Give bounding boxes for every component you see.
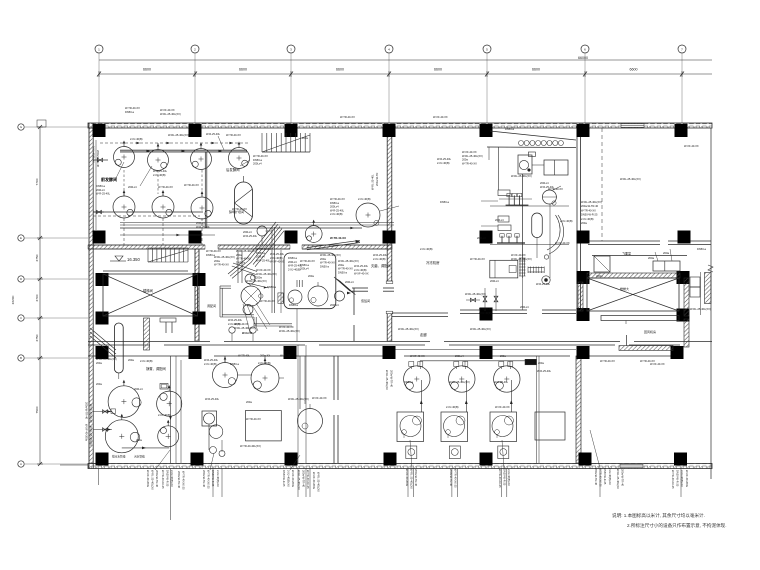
svg-text:2-XJ-40(B)-XX: 2-XJ-40(B)-XX bbox=[216, 470, 220, 487]
svg-text:W-RL-25-40L(XX): W-RL-25-40L(XX) bbox=[168, 133, 189, 137]
left wall rot labels bbox=[385, 370, 394, 390]
svg-text:W-RL-25-40L(XX: W-RL-25-40L(XX bbox=[317, 472, 321, 492]
right stair landing bbox=[601, 316, 679, 325]
tank S3 bbox=[157, 385, 182, 416]
svg-text:6600: 6600 bbox=[630, 68, 638, 72]
svg-text:W-TR-40-XX-25: W-TR-40-XX-25 bbox=[306, 470, 310, 489]
tank F6 bbox=[152, 190, 174, 218]
svg-text:G: G bbox=[20, 125, 22, 129]
svg-text:W-RL-25-40L(XX): W-RL-25-40L(XX) bbox=[256, 272, 277, 276]
svg-text:6600: 6600 bbox=[434, 68, 442, 72]
room label feimian bbox=[622, 251, 631, 256]
svg-text:W-RL-25-40L(XX): W-RL-25-40L(XX) bbox=[511, 174, 532, 178]
pump small near capsule bbox=[257, 226, 272, 245]
svg-text:DN50-a: DN50-a bbox=[404, 380, 413, 384]
svg-text:W-XF-40-200a: W-XF-40-200a bbox=[146, 470, 150, 488]
svg-text:2-XJ-40(B): 2-XJ-40(B) bbox=[270, 256, 283, 260]
svg-text:200a: 200a bbox=[136, 438, 142, 442]
svg-text:前发酵间: 前发酵间 bbox=[101, 176, 117, 182]
pump box B1 bbox=[406, 446, 417, 459]
svg-text:200Lx4: 200Lx4 bbox=[256, 255, 265, 259]
svg-text:DN50-a: DN50-a bbox=[96, 184, 105, 188]
svg-text:DN50-a: DN50-a bbox=[288, 256, 297, 260]
machine coupling horizontal bbox=[528, 267, 544, 274]
svg-text:W-R-25-40L: W-R-25-40L bbox=[153, 169, 168, 173]
pump box B2 bbox=[449, 446, 460, 459]
svg-text:C: C bbox=[20, 316, 22, 320]
chain circles bbox=[241, 274, 263, 315]
svg-text:DN50-a: DN50-a bbox=[505, 127, 514, 131]
stair top-middle bbox=[262, 133, 310, 152]
svg-text:排污水管线: 排污水管线 bbox=[112, 455, 126, 459]
room label ferment bbox=[101, 176, 117, 182]
machine box B bbox=[518, 152, 535, 174]
pipe drop machine x522 bbox=[521, 174, 523, 278]
tank M1 bbox=[213, 357, 238, 388]
tank B3 bbox=[494, 362, 520, 393]
tank F2 bbox=[148, 144, 169, 171]
svg-text:W-RL-25-40L(XX: W-RL-25-40L(XX bbox=[89, 426, 93, 446]
svg-text:DN50-a: DN50-a bbox=[256, 251, 265, 255]
svg-text:200Lx4: 200Lx4 bbox=[495, 218, 504, 222]
svg-text:DN50-a: DN50-a bbox=[330, 201, 339, 205]
right box1 bbox=[594, 256, 610, 272]
svg-text:W-XF-40-XX: W-XF-40-XX bbox=[433, 115, 448, 119]
wall miejun small y288 bbox=[352, 288, 394, 341]
svg-text:200Lx4: 200Lx4 bbox=[345, 280, 354, 284]
svg-text:W-RL-25-40L(XX): W-RL-25-40L(XX) bbox=[279, 329, 300, 333]
svg-text:200Lx4: 200Lx4 bbox=[300, 267, 309, 271]
svg-text:200Lx4: 200Lx4 bbox=[253, 162, 262, 166]
svg-text:200a-W-TR-40: 200a-W-TR-40 bbox=[449, 469, 453, 487]
svg-text:W-XF-40-XX: W-XF-40-XX bbox=[410, 354, 425, 358]
svg-text:W-XF-40-XX: W-XF-40-XX bbox=[312, 396, 327, 400]
svg-text:W-XF-40-200a: W-XF-40-200a bbox=[312, 472, 316, 490]
svg-text:W-R-25-40L: W-R-25-40L bbox=[228, 318, 243, 322]
svg-text:W-XF-40-XX: W-XF-40-XX bbox=[555, 241, 570, 245]
unit square B2 bbox=[441, 412, 468, 442]
svg-text:污水管线: 污水管线 bbox=[134, 455, 145, 459]
svg-text:2-XJ-40(B): 2-XJ-40(B) bbox=[560, 219, 573, 223]
svg-text:W-R-25-40L: W-R-25-40L bbox=[243, 234, 258, 238]
notes text bbox=[612, 512, 727, 529]
svg-text:W-R-25-40L: W-R-25-40L bbox=[537, 369, 552, 373]
svg-text:200a: 200a bbox=[246, 400, 252, 404]
right stair hatch top bbox=[587, 273, 680, 278]
pad drop pipe bbox=[296, 309, 298, 341]
svg-text:W-RL-25-40L(XX): W-RL-25-40L(XX) bbox=[96, 357, 117, 361]
svg-text:W-XF-40-XX: W-XF-40-XX bbox=[511, 253, 526, 257]
pump pad2 bbox=[308, 282, 328, 306]
svg-text:静置、调配间: 静置、调配间 bbox=[146, 366, 166, 371]
svg-text:2-XJ-40(B): 2-XJ-40(B) bbox=[358, 197, 371, 201]
svg-text:DN50-W-R-25: DN50-W-R-25 bbox=[603, 468, 607, 485]
svg-text:W-TR-40-XX-25: W-TR-40-XX-25 bbox=[182, 471, 186, 490]
svg-text:W-R-25-40L: W-R-25-40L bbox=[494, 380, 509, 384]
right stair right wall bbox=[684, 278, 689, 316]
bottom-left pipe verticals bbox=[169, 356, 181, 463]
right stair left wall bbox=[578, 282, 583, 311]
svg-text:200Lx4: 200Lx4 bbox=[196, 221, 205, 225]
room label lengdong bbox=[426, 260, 440, 265]
right 200m label bbox=[596, 251, 669, 278]
machine coupling vertical bbox=[519, 258, 526, 276]
svg-text:2-XJ-40(B)-XX: 2-XJ-40(B)-XX bbox=[507, 469, 511, 486]
svg-text:200m: 200m bbox=[596, 274, 603, 278]
below-wall rotated labels bbox=[146, 468, 689, 492]
svg-text:DN50-a: DN50-a bbox=[440, 200, 449, 204]
wall right-room y243 bbox=[588, 241, 711, 245]
svg-text:DN50-a: DN50-a bbox=[697, 247, 706, 251]
svg-text:W-R-25-40L: W-R-25-40L bbox=[479, 307, 494, 311]
mid-left pumps bbox=[210, 447, 226, 457]
svg-text:200a: 200a bbox=[320, 257, 326, 261]
left dimension lines bbox=[11, 120, 88, 467]
machine box E bbox=[490, 260, 518, 278]
svg-text:200a-W-TR: 200a-W-TR bbox=[375, 173, 379, 186]
svg-text:W-TR-40-XX: W-TR-40-XX bbox=[581, 208, 596, 212]
svg-text:W-RL-25-40L(XX): W-RL-25-40L(XX) bbox=[465, 292, 486, 296]
svg-text:W-R-25-40L: W-R-25-40L bbox=[437, 157, 452, 161]
wall bottom-right divider x576 hatched bbox=[576, 356, 581, 463]
svg-text:DN50-W-R-25: DN50-W-R-25 bbox=[166, 470, 170, 487]
wall right y255 bbox=[592, 255, 687, 257]
left wall pipe vertical bbox=[95, 140, 97, 230]
elevation marker 16.350 bbox=[110, 256, 140, 262]
svg-text:W-XF-40-XX: W-XF-40-XX bbox=[354, 272, 369, 276]
pipe verticals x272 bbox=[272, 227, 281, 313]
left wall valve stubs bbox=[93, 158, 108, 214]
svg-text:200a: 200a bbox=[648, 256, 654, 260]
svg-text:W-XF-40-XX: W-XF-40-XX bbox=[650, 362, 665, 366]
machine valves bbox=[483, 288, 498, 311]
annotation clusters bbox=[96, 106, 711, 442]
svg-text:W-TR-40-XX: W-TR-40-XX bbox=[214, 263, 229, 267]
svg-text:2-XJ-40(B)-XX: 2-XJ-40(B)-XX bbox=[170, 470, 174, 487]
svg-text:DN50-a: DN50-a bbox=[125, 110, 134, 114]
svg-text:200a-W-TR-40: 200a-W-TR-40 bbox=[414, 469, 418, 487]
svg-text:W-TR-40-XX: W-TR-40-XX bbox=[256, 247, 271, 251]
unit square B3 bbox=[490, 412, 517, 442]
svg-text:W-TR-40-XX-25: W-TR-40-XX-25 bbox=[89, 404, 93, 423]
bundle tail vertical bbox=[238, 250, 242, 283]
wall bottom bbox=[88, 464, 712, 469]
svg-text:200a-W-TR-40: 200a-W-TR-40 bbox=[202, 470, 206, 488]
svg-text:2-XJ-40(B): 2-XJ-40(B) bbox=[288, 267, 301, 271]
svg-text:16.350: 16.350 bbox=[127, 257, 140, 262]
svg-text:W-RL-25-40L(XX: W-RL-25-40L(XX bbox=[410, 469, 414, 489]
machine hook pipe bbox=[544, 215, 563, 259]
svg-text:W-TR-40-XX: W-TR-40-XX bbox=[548, 187, 563, 191]
svg-text:W-RL-25-40L(XX): W-RL-25-40L(XX) bbox=[320, 253, 341, 257]
svg-text:W-TR-40-XX: W-TR-40-XX bbox=[184, 183, 199, 187]
tiaopei leaders bbox=[242, 303, 270, 335]
svg-text:DN50-a: DN50-a bbox=[253, 158, 262, 162]
pumps above corridor bbox=[229, 327, 256, 341]
svg-text:200a-W-TR-40: 200a-W-TR-40 bbox=[390, 370, 394, 388]
svg-text:说明: 1.本图标高以米计, 其余尺寸均以毫米计.: 说明: 1.本图标高以米计, 其余尺寸均以毫米计. bbox=[612, 512, 705, 519]
machine valve left bbox=[466, 298, 480, 302]
pad risers bbox=[297, 280, 302, 287]
svg-text:2-XJ-40(B): 2-XJ-40(B) bbox=[479, 311, 492, 315]
svg-text:6600: 6600 bbox=[336, 68, 344, 72]
svg-text:W-XF-40-XX: W-XF-40-XX bbox=[234, 322, 249, 326]
svg-text:200a-W-TR-40: 200a-W-TR-40 bbox=[302, 470, 306, 488]
svg-text:22200: 22200 bbox=[11, 295, 15, 304]
svg-text:2-XJ-40(B): 2-XJ-40(B) bbox=[158, 413, 171, 417]
corridor labels row bbox=[238, 354, 291, 358]
svg-text:200Lx4: 200Lx4 bbox=[520, 305, 529, 309]
svg-text:W-RL-25-40L(XX): W-RL-25-40L(XX) bbox=[581, 200, 602, 204]
svg-text:W-TR-40-XX: W-TR-40-XX bbox=[246, 417, 261, 421]
svg-text:200a: 200a bbox=[96, 361, 102, 365]
machine right labels bbox=[581, 200, 602, 225]
pipe row2 y212 bbox=[93, 212, 203, 216]
svg-text:200a-W-TR-40: 200a-W-TR-40 bbox=[85, 402, 89, 420]
svg-text:200Lx4: 200Lx4 bbox=[477, 236, 486, 240]
svg-text:200a: 200a bbox=[462, 158, 468, 162]
svg-text:W-XF-40-XX: W-XF-40-XX bbox=[160, 108, 175, 112]
pump unit 2 bbox=[490, 234, 569, 245]
wall right poche bbox=[705, 273, 712, 304]
unit square extra bbox=[535, 412, 565, 440]
mid-left pipes bbox=[209, 356, 305, 452]
tank S2 bbox=[105, 414, 139, 453]
svg-text:W-RL-25-40L(XX): W-RL-25-40L(XX) bbox=[449, 380, 470, 384]
svg-text:200a: 200a bbox=[128, 358, 134, 362]
conveyor slanted bbox=[232, 263, 269, 289]
label ward room bbox=[361, 298, 370, 303]
pipe drop B2 bbox=[465, 380, 468, 412]
svg-text:W-R-25-40L: W-R-25-40L bbox=[354, 264, 369, 268]
tank B2 bbox=[449, 362, 475, 393]
svg-text:6600: 6600 bbox=[239, 68, 247, 72]
right brackets bbox=[690, 272, 701, 315]
machine box A bbox=[544, 160, 568, 175]
svg-text:66000: 66000 bbox=[578, 56, 588, 60]
wall right line bbox=[708, 128, 713, 479]
svg-text:W-XF-40-XX: W-XF-40-XX bbox=[462, 150, 477, 154]
svg-text:2-XJ-40(B): 2-XJ-40(B) bbox=[446, 405, 459, 409]
room label louti2 bbox=[620, 286, 629, 291]
unit square M3 bbox=[202, 411, 223, 438]
mini bundle to wall bbox=[334, 277, 355, 295]
svg-text:W-RL-25-40L(XX): W-RL-25-40L(XX) bbox=[246, 279, 267, 283]
svg-text:2750: 2750 bbox=[35, 254, 39, 261]
tank M4 bbox=[298, 404, 323, 434]
stair left steps bbox=[148, 248, 188, 262]
wall machine-room bottom y310 bbox=[392, 310, 576, 317]
svg-text:2-XJ-40(B): 2-XJ-40(B) bbox=[373, 257, 386, 261]
svg-text:200Lx4: 200Lx4 bbox=[134, 387, 143, 391]
leader lines bbox=[155, 430, 600, 470]
tank pill vertical bbox=[114, 323, 123, 379]
svg-text:W-XF-40-200a: W-XF-40-200a bbox=[405, 469, 409, 487]
long label bottom bbox=[240, 444, 261, 448]
pump box B3 bbox=[498, 446, 509, 459]
svg-text:飞面室: 飞面室 bbox=[622, 251, 631, 256]
wall machine-room right x577 bbox=[577, 135, 581, 315]
wall top bbox=[88, 123, 712, 128]
svg-text:7700: 7700 bbox=[35, 178, 39, 185]
svg-text:E: E bbox=[20, 236, 22, 240]
svg-text:200a-W-TR-40: 200a-W-TR-40 bbox=[621, 469, 625, 487]
room label corridor bbox=[420, 332, 427, 337]
svg-text:W-TR-40-XX: W-TR-40-XX bbox=[206, 249, 221, 253]
svg-text:W-RL-25-40L(XX): W-RL-25-40L(XX) bbox=[462, 154, 483, 158]
svg-text:DN50-W-R-25: DN50-W-R-25 bbox=[282, 470, 286, 487]
svg-text:200a: 200a bbox=[256, 276, 262, 280]
wall left bbox=[89, 123, 93, 469]
machine capsule D bbox=[532, 213, 543, 237]
outside-left rotated labels bbox=[85, 146, 101, 446]
svg-text:2-XJ-40(B): 2-XJ-40(B) bbox=[330, 212, 343, 216]
svg-text:200a-W-TR-40: 200a-W-TR-40 bbox=[581, 204, 599, 208]
svg-text:2-XJ-40(B): 2-XJ-40(B) bbox=[130, 137, 143, 141]
svg-text:DN50-a: DN50-a bbox=[320, 264, 329, 268]
tank S4 bbox=[158, 420, 179, 447]
wall corridor top y341 bbox=[88, 342, 712, 346]
black label box bbox=[525, 359, 544, 365]
svg-text:冷冻机房: 冷冻机房 bbox=[426, 260, 440, 265]
svg-text:200a: 200a bbox=[308, 274, 314, 278]
svg-text:200a: 200a bbox=[581, 221, 587, 225]
svg-text:200a-W-TR-40: 200a-W-TR-40 bbox=[594, 468, 598, 486]
pump unit 1 bbox=[490, 193, 569, 206]
svg-text:6600: 6600 bbox=[143, 68, 151, 72]
svg-text:W-XF-40-200a: W-XF-40-200a bbox=[291, 470, 295, 488]
svg-text:200Lx4: 200Lx4 bbox=[540, 181, 549, 185]
svg-text:W-RL-25-40L(XX: W-RL-25-40L(XX bbox=[151, 470, 155, 490]
bottom-left wall valves bbox=[93, 410, 112, 432]
svg-text:2-XJ-40(B)-XX: 2-XJ-40(B)-XX bbox=[92, 146, 96, 163]
svg-text:W-RL-25-40L(XX): W-RL-25-40L(XX) bbox=[288, 397, 309, 401]
svg-text:2-XJ-40(B)-XX: 2-XJ-40(B)-XX bbox=[608, 468, 612, 485]
pipe drop B3 bbox=[510, 380, 513, 412]
svg-text:2-XJ-40(B)-XX: 2-XJ-40(B)-XX bbox=[287, 470, 291, 487]
leaders ferment bbox=[115, 136, 250, 186]
pipe header dashed y143 bbox=[100, 142, 248, 144]
svg-text:楼梯间: 楼梯间 bbox=[143, 288, 153, 293]
pipe pair right bbox=[537, 356, 540, 463]
svg-text:DN50-a: DN50-a bbox=[236, 260, 245, 264]
pipe stubs below wall bbox=[171, 469, 682, 521]
wall bottom-rooms divider x335 bbox=[334, 356, 338, 463]
svg-text:W-TR-40-XX-25: W-TR-40-XX-25 bbox=[454, 469, 458, 488]
svg-text:2-XJ-40(B): 2-XJ-40(B) bbox=[437, 161, 450, 165]
svg-text:W-TR-40-XX: W-TR-40-XX bbox=[338, 267, 353, 271]
tank B1 bbox=[404, 362, 430, 393]
svg-text:D: D bbox=[20, 277, 22, 281]
svg-text:200a-W-TR-40: 200a-W-TR-40 bbox=[96, 150, 100, 168]
svg-text:调配间: 调配间 bbox=[207, 303, 216, 308]
svg-text:W-TR-40-40L(XX): W-TR-40-40L(XX) bbox=[240, 444, 261, 448]
svg-text:W-TR-40-XX: W-TR-40-XX bbox=[330, 197, 345, 201]
svg-text:200a: 200a bbox=[96, 382, 102, 386]
pipe arrows bbox=[136, 142, 233, 153]
machine circle F bbox=[542, 276, 550, 284]
svg-text:W-RL-25-40L(XX): W-RL-25-40L(XX) bbox=[511, 257, 532, 261]
svg-text:W-TR-40-XX-25: W-TR-40-XX-25 bbox=[207, 470, 211, 489]
svg-text:W-XF-40-XX: W-XF-40-XX bbox=[256, 268, 271, 272]
wall stair-room right x195 bbox=[195, 249, 199, 341]
svg-text:W-RL-25-40L(XX: W-RL-25-40L(XX bbox=[616, 469, 620, 489]
svg-text:A: A bbox=[20, 462, 22, 466]
svg-text:W-TR-40-XX-25: W-TR-40-XX-25 bbox=[161, 470, 165, 489]
stairwell label bbox=[143, 288, 153, 293]
svg-text:200a-W-TR-40: 200a-W-TR-40 bbox=[155, 470, 159, 488]
grid tail below bottom-left bbox=[60, 465, 99, 485]
svg-text:DN50-W-R-25: DN50-W-R-25 bbox=[581, 213, 598, 217]
shaft labels bbox=[371, 173, 380, 190]
svg-text:W-TR-40-XX: W-TR-40-XX bbox=[300, 259, 315, 263]
svg-text:200a: 200a bbox=[338, 263, 344, 267]
svg-text:灭菌、调配间: 灭菌、调配间 bbox=[371, 263, 391, 268]
svg-text:2.所标注尺寸小的设备只作布置示意, 不拘泥体现.: 2.所标注尺寸小的设备只作布置示意, 不拘泥体现. bbox=[627, 522, 727, 529]
svg-text:DN50-a: DN50-a bbox=[289, 303, 298, 307]
svg-text:200a: 200a bbox=[302, 136, 308, 140]
pipe row2 bottom bbox=[120, 234, 215, 237]
pipe y228 bbox=[120, 227, 362, 230]
svg-text:W-TR-40-XX: W-TR-40-XX bbox=[253, 154, 268, 158]
svg-text:200Lx4: 200Lx4 bbox=[243, 230, 252, 234]
huifeng walls bbox=[619, 319, 689, 350]
svg-text:值班间: 值班间 bbox=[361, 298, 370, 303]
svg-text:W-TR-40-XX: W-TR-40-XX bbox=[462, 161, 477, 165]
svg-text:W-R-25-40L: W-R-25-40L bbox=[96, 192, 111, 196]
partition tiaopei bbox=[220, 286, 292, 326]
svg-text:W-XF-40-XX: W-XF-40-XX bbox=[684, 144, 699, 148]
svg-text:W-TR-40-XX: W-TR-40-XX bbox=[320, 261, 335, 265]
tank F7 bbox=[191, 191, 213, 219]
svg-text:W-RL-25-40L(XX): W-RL-25-40L(XX) bbox=[338, 259, 359, 263]
svg-text:W-XF-40-XX: W-XF-40-XX bbox=[495, 405, 510, 409]
svg-text:2-XJ-40(B): 2-XJ-40(B) bbox=[258, 361, 271, 365]
svg-text:200Lx4: 200Lx4 bbox=[330, 205, 339, 209]
svg-text:W-RL-25-40L(XX): W-RL-25-40L(XX) bbox=[214, 255, 235, 259]
grid bubbles top bbox=[95, 45, 686, 123]
svg-text:W-TR-40-XX: W-TR-40-XX bbox=[340, 115, 355, 119]
pipe y222-225 double bbox=[120, 223, 394, 226]
unit square B1 bbox=[397, 412, 424, 442]
svg-text:2750: 2750 bbox=[35, 334, 39, 341]
tank F4 bbox=[229, 142, 250, 169]
svg-text:DN50-a: DN50-a bbox=[338, 270, 347, 274]
pipe header double y150 bbox=[120, 150, 247, 152]
svg-text:7500: 7500 bbox=[35, 406, 39, 413]
pump pad1 bbox=[288, 290, 302, 304]
svg-text:2-XJ-40(B): 2-XJ-40(B) bbox=[204, 362, 217, 366]
stair left landing line bbox=[103, 270, 188, 272]
svg-text:W-TR-40-XX: W-TR-40-XX bbox=[236, 257, 251, 261]
pipe bundle diagonal bbox=[228, 222, 284, 278]
svg-text:2-XJ-40(B): 2-XJ-40(B) bbox=[581, 217, 594, 221]
svg-text:W-XF-40-XX: W-XF-40-XX bbox=[270, 260, 285, 264]
svg-text:走廊: 走廊 bbox=[420, 332, 427, 337]
wall T below stairs bbox=[144, 318, 177, 350]
room label miejun bbox=[371, 263, 391, 268]
svg-text:200Lx4: 200Lx4 bbox=[128, 185, 137, 189]
svg-text:回风机房: 回风机房 bbox=[644, 329, 656, 334]
right stair X box bbox=[587, 278, 679, 311]
pump pad3 bbox=[335, 291, 345, 301]
room label tiaopei bbox=[207, 303, 216, 308]
tank F1 bbox=[114, 141, 135, 168]
svg-text:W-R-25-40L: W-R-25-40L bbox=[204, 358, 219, 362]
svg-text:200a: 200a bbox=[500, 354, 506, 358]
pipe drop B1 bbox=[420, 380, 423, 412]
svg-text:W-RL-25-40L(XX): W-RL-25-40L(XX) bbox=[470, 327, 491, 331]
